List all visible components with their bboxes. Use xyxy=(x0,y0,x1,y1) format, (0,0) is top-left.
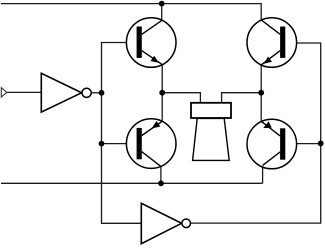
wire Q3 collector drop xyxy=(160,166,162,183)
transistor Q4 (bottom-right PNP) xyxy=(247,119,297,169)
wire Q3 base lead xyxy=(102,143,137,145)
input port arrow (left edge) xyxy=(1,88,6,98)
wire bottom rail xyxy=(1,182,263,184)
inverter U1 output bubble xyxy=(82,88,91,97)
node top rail junction xyxy=(159,1,165,7)
wire Q4 collector drop xyxy=(262,165,264,183)
node Q3 base junction xyxy=(99,141,105,147)
wire piezo right lead to right node xyxy=(222,93,262,104)
node Q4 base junction xyxy=(318,141,324,147)
wire stub from top junction down to Q1 collector xyxy=(161,4,163,21)
wire piezo left lead to left node xyxy=(162,93,200,104)
wire Q1 emitter to Q3 emitter (left mid column) xyxy=(161,65,163,122)
node piezo left junction xyxy=(159,90,165,96)
node bottom rail junction xyxy=(158,180,164,186)
piezo transducer LS1 (horn trapezoid) xyxy=(193,118,230,160)
node U1 output junction xyxy=(99,90,105,96)
inverter U1 (left) triangle xyxy=(41,73,81,112)
wire top supply rail with corner down to Q2 collector xyxy=(1,4,261,20)
wire U1 output bubble to junction xyxy=(91,92,101,94)
inverter U2 (bottom) triangle xyxy=(141,203,181,243)
wire right control line: Q2 base, down right side, to U2 output xyxy=(191,43,321,223)
transistor Q1 (top-left NPN) xyxy=(126,18,176,68)
piezo transducer LS1 (rectangle) xyxy=(191,103,231,118)
wire Q2 emitter to Q4 emitter (right mid column) xyxy=(260,65,262,121)
wire input port to U1 xyxy=(7,91,42,93)
transistor Q2 (top-right NPN) xyxy=(247,18,297,68)
inverter U2 output bubble xyxy=(182,219,191,228)
node piezo right junction xyxy=(258,90,264,96)
transistor Q3 (bottom-left PNP) xyxy=(126,119,176,169)
wire left control line: Q1 base, down past U1 output, Q3 base, to U2 input xyxy=(102,43,142,224)
wire Q4 base lead xyxy=(285,143,320,145)
